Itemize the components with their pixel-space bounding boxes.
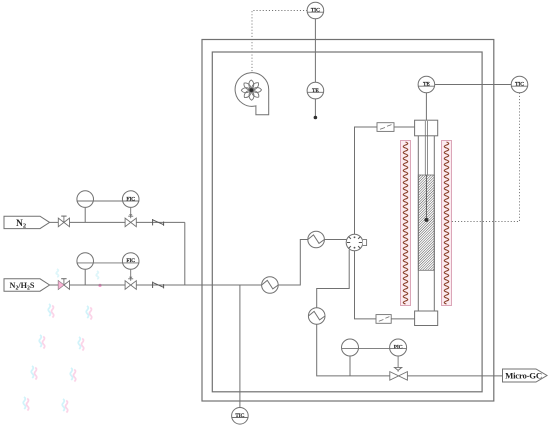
flag N2 [4, 216, 50, 228]
controller TIC oven [307, 2, 324, 19]
controller TIC gas line (bottom) [232, 408, 249, 425]
instrument connect line N2 [77, 200, 140, 202]
heat exchanger HX3 [308, 308, 325, 325]
N2/H2S supply line [50, 284, 262, 286]
control valve FIC H2S [125, 281, 131, 290]
flag N2/H2S [4, 279, 50, 291]
control valve FIC N2 [125, 218, 131, 227]
wire HX1 to HX2 [278, 240, 308, 286]
control valve actuator [394, 367, 401, 370]
back pressure control valve [390, 372, 399, 381]
cabinet outer wall [202, 40, 494, 402]
svg-text:PIC: PIC [394, 345, 403, 351]
thermowell [424, 121, 426, 175]
fan wheel rosette [241, 80, 261, 100]
N2 supply line [50, 221, 185, 223]
signal TIC to heater (dashed) [452, 93, 520, 222]
heater left [401, 141, 411, 306]
svg-text:TIC: TIC [311, 8, 320, 14]
wire valve to HX3 [317, 250, 350, 308]
PIC stem [397, 356, 399, 369]
controller PIC [390, 339, 407, 356]
TE probe tip [314, 116, 318, 120]
svg-text:N2/H2S: N2/H2S [10, 281, 35, 291]
instrument connect line PI-PIC [342, 348, 407, 350]
flex joint top [377, 123, 394, 132]
wire HX3 down to sample line [317, 324, 390, 376]
flow controller FIC N2 [122, 191, 139, 208]
temperature element TE reactor [418, 76, 435, 93]
check valve H2S [152, 282, 154, 288]
wire valve to reactor top [355, 127, 378, 234]
hand valve N2/H2S [58, 281, 64, 290]
heater right [442, 141, 452, 306]
svg-text:TE: TE [312, 88, 319, 94]
instrument connect line H2S [77, 262, 140, 264]
check valve N2 [152, 219, 154, 225]
svg-text:TE: TE [423, 82, 430, 88]
pressure gauge sample [342, 339, 359, 356]
heat exchanger HX1 [262, 277, 279, 294]
fan volute [235, 73, 269, 115]
N2 line down to junction [184, 222, 186, 285]
catalyst bed [418, 175, 434, 270]
pressure gauge stem N2 [84, 208, 86, 223]
control valve stem N2 [130, 208, 132, 219]
sample line to Micro-GC [408, 375, 503, 377]
svg-text:TIC: TIC [235, 413, 244, 419]
TE probe wire [314, 99, 316, 116]
oven inner wall [212, 52, 482, 392]
heat exchanger HX2 [308, 231, 325, 248]
signal line TIC to fan (dashed) [252, 11, 307, 73]
wire reactor bottom to valve [355, 251, 377, 319]
pressure gauge stem H2S [84, 270, 86, 285]
reactor tube [417, 136, 419, 311]
wire TE reactor down [425, 93, 427, 120]
flow controller FIC H2S [122, 253, 139, 270]
svg-text:Micro-GC: Micro-GC [505, 371, 542, 381]
valve handle tab [363, 240, 367, 246]
wire to bottom TIC [239, 285, 241, 408]
pressure gauge H2S [77, 253, 94, 270]
6-port valve body [346, 234, 363, 251]
wire TIC to TE [314, 19, 316, 83]
watermark artifacts [48, 304, 53, 317]
control valve stem H2S [130, 270, 132, 281]
pressure gauge stem [349, 356, 351, 376]
hand valve N2 [58, 218, 64, 227]
svg-text:TIC: TIC [515, 82, 524, 88]
temperature element TE oven [307, 82, 324, 99]
reactor top flange [415, 120, 438, 136]
reactor bottom flange [415, 311, 438, 326]
wire TE to TIC reactor [435, 84, 512, 86]
pressure gauge N2 [77, 191, 94, 208]
flex joint bottom [376, 315, 391, 324]
wire HX2 to 6-port valve [324, 239, 346, 241]
controller TIC reactor [511, 76, 528, 93]
thermowell tip [424, 218, 428, 222]
flag Micro-GC [503, 369, 548, 382]
